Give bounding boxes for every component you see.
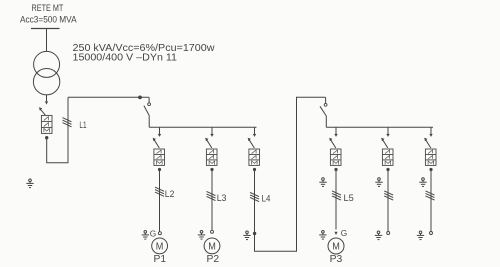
svg-text:RETE MT: RETE MT [32,3,64,13]
breaker QF6 box [425,149,436,165]
cable hatch feeder 6 [426,191,435,200]
terminal circle P2 [211,230,214,233]
junction dot QF6 [429,168,432,171]
wire QF0 down-right-up to bus [47,97,68,163]
breaker QF0 box [41,115,52,133]
wire QF2 to motor P2 [211,171,213,230]
cable L4 hatch [250,192,259,201]
switch QS2 hinge circle [324,103,327,106]
arrowhead at motor P3 [334,232,337,235]
svg-text:G: G [341,228,347,238]
wire feeder 6 [430,171,432,232]
cable L1 hatch [63,118,72,127]
svg-text:G: G [150,229,156,239]
svg-text:L4: L4 [262,194,271,204]
motor P1 circle [152,238,168,254]
cable L5 hatch [332,191,341,200]
svg-text:P3: P3 [330,254,343,265]
wire QS2 to bus 2 [325,116,327,127]
junction dot on bus [138,96,142,100]
junction dot QF5 [386,168,389,171]
junction dot below QF0 [45,136,48,139]
ground at P3 [319,231,326,240]
motor P2 circle [204,238,220,254]
wire QS1 to bus 1 [148,116,150,128]
feeder 5 head [381,127,390,148]
ground at L4 end [243,231,250,240]
switch QS1 hinge circle [148,103,151,106]
svg-text:M: M [208,241,216,253]
wire QF1 to motor P1 [159,171,161,232]
upper ground feeder P3 [319,178,326,187]
feeder P1 head [153,127,162,148]
switch QS1 blade [144,106,149,116]
feeder P2 head [205,127,214,148]
switch QS2 blade [320,106,326,116]
terminal circle P1 [158,232,161,235]
svg-text:Acc3=500 MVA: Acc3=500 MVA [20,14,77,25]
junction dot QF4 [334,168,337,171]
breaker QF0 blade [40,109,46,116]
svg-text:L1: L1 [79,120,86,130]
ground below QF0 [26,179,33,188]
svg-text:P2: P2 [207,254,220,265]
main bus wire to switch QS1 [68,96,149,98]
node: MT network bar [31,28,60,30]
junction dot QF2 [210,168,213,171]
bus 1 [149,126,256,128]
svg-text:15000/400 V –DYn 11: 15000/400 V –DYn 11 [73,53,178,64]
svg-text:M: M [156,241,164,253]
ground at feeder 6 end [417,231,424,240]
junction dot QF3 [253,168,256,171]
terminal circle feeder 5 [387,232,390,235]
bus 2 [326,126,433,128]
ground at P2 [198,231,205,240]
feeder 6 head [424,127,433,148]
svg-text:L3: L3 [217,193,227,203]
wire L4 down-right-up to switch QS2 [255,97,326,251]
breaker QF2 box [206,149,217,165]
svg-text:L5: L5 [344,193,354,203]
feeder P3 head [329,127,338,148]
svg-text:M: M [332,241,340,253]
junction dot QF1 [158,168,161,171]
ground at P1 [142,231,149,240]
svg-text:P1: P1 [154,254,167,265]
svg-text:L2: L2 [165,189,175,199]
motor P3 circle [328,238,344,254]
breaker QF5 box [382,149,393,165]
wire QF4 to motor P3 [335,171,337,230]
junction dot on L4 wire [253,232,256,235]
cable L2 hatch [155,187,164,196]
terminal circle feeder 6 [430,232,433,235]
ground at feeder 5 end [375,231,382,240]
arrowhead down [45,101,48,104]
cable L3 hatch [207,191,216,200]
switch QS2 stub [325,97,327,103]
breaker QF3 box [249,149,260,165]
feeder L4 head [248,127,257,148]
wire bar to transformer [46,29,48,52]
cable hatch feeder 5 [384,191,393,200]
wire feeder 5 [387,171,389,232]
switch QS1 stub [148,97,150,103]
upper ground feeder 5 [375,178,382,187]
breaker QF4 box [330,149,341,165]
upper ground feeder 6 [419,178,426,187]
wire transformer to breaker QF0 [46,95,48,101]
transformer T1 [33,51,59,95]
breaker QF0 blade arrow [39,107,42,111]
breaker QF1 box [154,149,165,165]
